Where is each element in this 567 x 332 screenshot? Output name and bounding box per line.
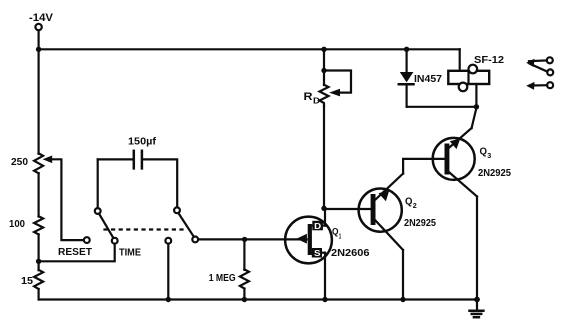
wire left rail bottom [37, 289, 39, 300]
potentiometer 250 [34, 153, 43, 173]
ground [470, 300, 484, 318]
wire bottom rail [39, 298, 477, 300]
transistor Q1 2N2606 [285, 217, 332, 264]
wire pole to capacitor loop left [97, 159, 99, 208]
contact S1b thrown [192, 237, 198, 243]
resistor 1 MEG [240, 269, 249, 288]
rheostat R_D [320, 85, 329, 106]
wire 1MEG bottom lead [243, 289, 245, 300]
relay armature upper [526, 59, 547, 72]
resistor 100 [34, 216, 43, 234]
node coil-diode-emitter junction [474, 104, 479, 109]
terminal -14V [35, 24, 41, 30]
node 1MEG top junction [242, 237, 247, 242]
node Q1 source bottom junction [322, 297, 327, 302]
wire S1b left contact to bottom rail [167, 244, 169, 300]
contact TIME [112, 238, 118, 244]
svg-text:1: 1 [339, 234, 342, 241]
switch S1a arm [99, 214, 114, 239]
switch S1a pole [95, 208, 101, 214]
relay armature lower [526, 82, 547, 90]
node Q1 drain junction [321, 206, 326, 211]
node Q2 collector bottom junction [400, 297, 405, 302]
wire gate line to Q1 [198, 238, 306, 240]
svg-text:1 MEG: 1 MEG [209, 272, 236, 284]
svg-text:RESET: RESET [58, 246, 93, 258]
wire capacitor right [143, 159, 177, 207]
wire Q1 source to bottom rail [324, 253, 326, 300]
switch S1b arm [178, 213, 194, 237]
svg-text:250: 250 [11, 156, 28, 168]
wire R_D upper lead [323, 49, 325, 85]
node R_D top-rail junction [321, 47, 326, 52]
wire Q1 drain to node [324, 208, 326, 225]
wire top rail drop to relay coil [459, 49, 461, 71]
svg-text:Q: Q [480, 147, 488, 158]
node bottom rail ground junction [474, 297, 480, 303]
wire 1MEG top lead [243, 239, 245, 269]
wire TIME contact to rail [39, 244, 115, 262]
switch S1b pole [174, 207, 180, 213]
wire Q3 emitter to coil node [472, 108, 477, 128]
relay contact upper stationary [547, 57, 553, 63]
node 1MEG bottom junction [242, 297, 247, 302]
wire left rail upper [37, 49, 39, 154]
relay contact lower stationary [547, 82, 553, 88]
resistor 15 [34, 270, 43, 289]
svg-text:IN457: IN457 [414, 73, 442, 85]
wire top rail [39, 48, 460, 50]
contact S1b left [165, 238, 171, 244]
wire relay coil to node [475, 84, 477, 107]
wire terminal to top rail [37, 31, 39, 50]
svg-text:D: D [314, 221, 321, 231]
svg-text:D: D [313, 96, 320, 106]
wire left rail mid [37, 173, 39, 217]
capacitor 150uf left plate [133, 151, 136, 169]
svg-text:2N2925: 2N2925 [404, 217, 436, 229]
svg-text:Q: Q [332, 227, 339, 238]
node R_D loop junction [321, 68, 326, 73]
wire left rail lower [37, 234, 39, 270]
svg-text:S: S [314, 248, 321, 258]
svg-text:2N2606: 2N2606 [331, 247, 370, 259]
ganged switch dashed link [103, 228, 183, 230]
capacitor 150uf right plate [141, 151, 144, 169]
wire R_D wiper loop [324, 71, 351, 93]
wire drain node to Q2 base [324, 208, 371, 210]
wire capacitor left [98, 158, 133, 160]
svg-text:2N2925: 2N2925 [478, 167, 511, 179]
wiper arrow of 250 pot [43, 156, 53, 164]
relay coil SF-12 [448, 65, 489, 92]
svg-text:-14V: -14V [29, 12, 54, 24]
svg-text:2: 2 [413, 201, 417, 210]
svg-text:150µf: 150µf [128, 136, 157, 148]
relay contact middle stationary [547, 69, 553, 75]
svg-text:Q: Q [405, 197, 413, 208]
node diode top-rail junction [404, 47, 409, 52]
wiper arrow of R_D [329, 89, 340, 97]
svg-text:15: 15 [21, 275, 33, 287]
svg-text:3: 3 [487, 151, 491, 160]
wire pot wiper to RESET contact [51, 159, 84, 240]
svg-text:R: R [304, 91, 313, 103]
svg-text:100: 100 [9, 218, 25, 230]
svg-text:TIME: TIME [119, 247, 141, 259]
wire Q3 collector to ground [476, 197, 478, 300]
transistor Q3 2N2925 [433, 128, 477, 197]
wire diode cathode to coil node [407, 106, 477, 108]
transistor Q2 2N2925 [359, 174, 404, 251]
svg-text:SF-12: SF-12 [474, 54, 504, 66]
node TIME-wire junction [36, 259, 41, 264]
wire Q2 collector to bottom rail [402, 250, 404, 300]
contact RESET [84, 237, 90, 243]
wire Q2 emitter to Q3 base [403, 159, 443, 174]
node top-left junction [36, 47, 41, 52]
diode 1N457 [399, 49, 414, 107]
node S1b contact bottom junction [166, 297, 171, 302]
wire R_D to drain node [323, 106, 325, 209]
